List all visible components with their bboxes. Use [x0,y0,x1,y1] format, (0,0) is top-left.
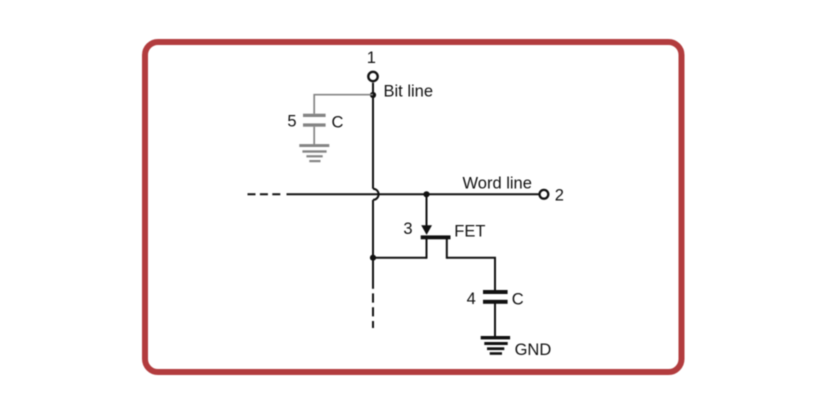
svg-text:4: 4 [467,290,476,308]
wire bit line dashed continuation [372,293,374,328]
terminal 1 [368,72,377,81]
wire C4 to ground [494,304,496,337]
capacitor C5 [303,114,326,127]
svg-text:2: 2 [555,187,564,205]
svg-text:3: 3 [403,220,412,238]
terminal 2 [540,190,549,199]
capacitor C4 [483,290,508,304]
wire word line [287,193,539,195]
node word line / gate [423,191,429,197]
svg-text:1: 1 [367,49,376,67]
svg-text:FET: FET [454,223,485,241]
svg-text:5: 5 [287,112,296,130]
wire bit line upper [372,83,374,189]
wire bit line mid (hop to dash) [372,200,374,289]
svg-text:C: C [512,291,524,309]
transistor FET (3): drain leg [446,239,448,259]
wire C5 to ground (gray) [313,127,315,145]
ground (gray) [299,144,329,162]
wire drain to capacitor C4 [447,258,495,291]
svg-text:Bit line: Bit line [384,83,434,101]
transistor FET (3): gate arrow [421,225,432,235]
node bit line / C5 tap [370,92,376,98]
transistor FET (3): channel bar [421,235,451,239]
svg-text:C: C [332,113,344,131]
ground GND [481,336,510,355]
wire bit line hop over word line [373,189,379,200]
wire to capacitor C5 (gray) [314,95,373,114]
wire source to bit line [373,257,427,259]
svg-text:Word line: Word line [463,174,532,192]
svg-text:GND: GND [515,341,552,359]
node bit line / source [370,255,376,261]
transistor FET (3): gate wire [426,194,428,226]
wire word line dashed lead [248,193,284,195]
transistor FET (3): source leg [426,239,428,259]
